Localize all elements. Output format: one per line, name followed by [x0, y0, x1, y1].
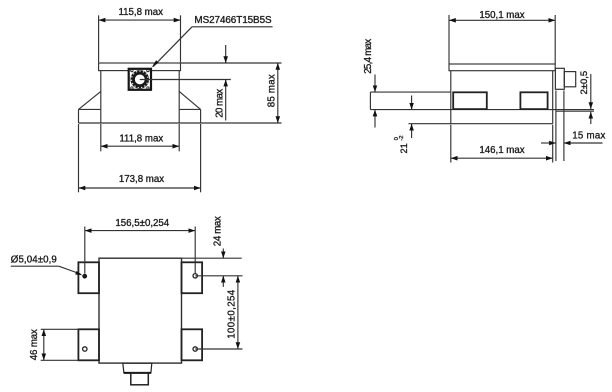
svg-text:115,8 max: 115,8 max: [118, 7, 163, 18]
svg-text:46 max: 46 max: [29, 329, 40, 360]
svg-text:15 max: 15 max: [572, 130, 605, 141]
svg-text:173,8 max: 173,8 max: [119, 174, 164, 185]
svg-text:25,4 max: 25,4 max: [363, 39, 374, 74]
svg-text:20 max: 20 max: [214, 89, 225, 118]
svg-text:24 max: 24 max: [212, 216, 223, 246]
svg-text:21: 21: [399, 143, 409, 153]
svg-text:156,5±0,254: 156,5±0,254: [115, 218, 169, 229]
svg-text:150,1 max: 150,1 max: [479, 10, 524, 21]
svg-text:111,8 max: 111,8 max: [119, 133, 163, 144]
svg-text:MS27466T15B5S: MS27466T15B5S: [194, 15, 272, 26]
svg-text:-2: -2: [399, 135, 405, 140]
svg-text:Ø5,04±0,9: Ø5,04±0,9: [11, 255, 57, 266]
svg-text:100±0,254: 100±0,254: [227, 289, 238, 339]
svg-text:85 max: 85 max: [267, 74, 278, 107]
svg-text:146,1 max: 146,1 max: [479, 145, 524, 156]
svg-text:2±0,5: 2±0,5: [579, 71, 590, 95]
